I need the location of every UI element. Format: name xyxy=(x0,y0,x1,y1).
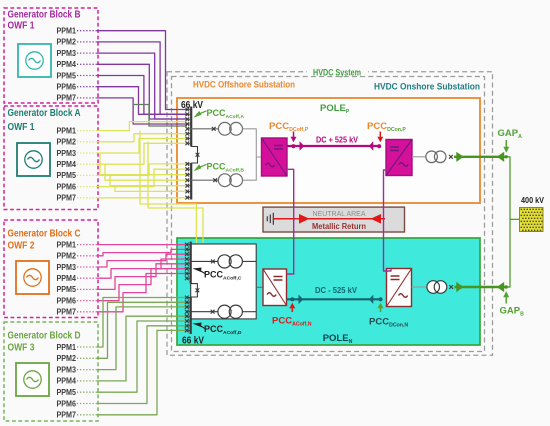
metallic return connection onshore (purple) xyxy=(384,170,392,271)
svg-text:Generator Block B: Generator Block B xyxy=(8,10,81,21)
svg-text:PPM6: PPM6 xyxy=(57,83,77,92)
svg-text:Generator Block D: Generator Block D xyxy=(8,331,81,342)
svg-text:PPM4: PPM4 xyxy=(57,60,77,69)
DC -525 kV line pole N xyxy=(287,295,383,305)
DC +525 kV line pole P xyxy=(287,141,381,151)
metallic return line with arrows (red) xyxy=(273,214,385,224)
wire: extra yellow rows into bus section B xyxy=(100,153,187,175)
svg-text:PPM6: PPM6 xyxy=(57,296,77,305)
svg-text:PPM5: PPM5 xyxy=(57,285,77,294)
bus coupler breaker between section A and B xyxy=(191,147,197,164)
svg-text:Generator Block A: Generator Block A xyxy=(8,108,81,119)
AC grid line pole N with arrows (green) xyxy=(454,282,508,292)
PCC ACoff,A marker xyxy=(194,111,202,118)
transformer T-C xyxy=(191,255,243,268)
breaker x onshore N xyxy=(449,285,453,289)
generator block A (OWF 1) xyxy=(4,106,98,210)
svg-text:OWF 1: OWF 1 xyxy=(8,21,35,32)
PCC DCon,N marker xyxy=(380,308,382,313)
svg-text:OWF 2: OWF 2 xyxy=(8,241,35,252)
66 kV busbar section C (offshore pole N) xyxy=(190,242,192,284)
generator block D (OWF 3) xyxy=(4,322,98,421)
wire bundle: block D PPM1-PPM7 to lower 66kV bus section D (green) xyxy=(77,298,186,415)
wire: dark sage line into bus row 4 xyxy=(133,105,187,127)
converter U4 onshore pole N (DC/AC) xyxy=(387,269,412,307)
PCC ACoff,B marker xyxy=(194,164,202,171)
POLE P boundary (orange rect) xyxy=(177,98,480,203)
AC grid line pole P with arrows (green) xyxy=(454,152,510,287)
branch to 400 kV grid xyxy=(510,218,520,220)
svg-text:PPM2: PPM2 xyxy=(57,38,77,47)
POLE N offshore AC switchyard white box xyxy=(191,244,257,319)
svg-text:PPM2: PPM2 xyxy=(57,354,77,363)
svg-text:PPM3: PPM3 xyxy=(57,149,77,158)
svg-text:DC - 525 kV: DC - 525 kV xyxy=(315,285,357,295)
svg-text:PPM1: PPM1 xyxy=(57,343,77,352)
svg-text:HVDC System: HVDC System xyxy=(313,68,361,78)
svg-text:OWF 3: OWF 3 xyxy=(8,343,35,354)
svg-text:PPM6: PPM6 xyxy=(57,399,77,408)
transformer T-D xyxy=(191,305,243,318)
gray AC collector lines to offshore converter P xyxy=(243,129,262,157)
svg-text:PPM5: PPM5 xyxy=(57,71,77,80)
svg-text:66 kV: 66 kV xyxy=(181,100,203,111)
transformer T-A xyxy=(191,122,243,135)
svg-text:HVDC Onshore Substation: HVDC Onshore Substation xyxy=(374,82,480,92)
svg-text:PPM1: PPM1 xyxy=(57,27,77,36)
outer HVDC System dashed boundary xyxy=(167,72,493,356)
converter U1 offshore pole P (AC/DC) xyxy=(262,138,288,176)
inner substations dashed boundary xyxy=(172,77,485,352)
neutral area box xyxy=(263,207,405,232)
generator block B (OWF 1) xyxy=(4,8,98,103)
svg-text:DC + 525 kV: DC + 525 kV xyxy=(316,135,358,145)
svg-text:PPM3: PPM3 xyxy=(57,263,77,272)
svg-text:PPM5: PPM5 xyxy=(57,388,77,397)
generator block C (OWF 2) xyxy=(4,220,98,318)
wire bundle: block A PPM1-PPM7 to 66kV bus sections (yellow) xyxy=(77,122,203,243)
svg-text:PPM7: PPM7 xyxy=(57,411,77,420)
wire: yellow risers feeding POLE N AC box xyxy=(140,131,196,243)
PCC ACoff,D marker xyxy=(193,323,202,328)
POLE N area (cyan rect) xyxy=(177,238,480,345)
svg-text:PPM4: PPM4 xyxy=(57,377,77,386)
400 kV grid equivalent box xyxy=(520,208,544,232)
PCC ACoff,C marker xyxy=(193,268,202,273)
svg-text:66 kV: 66 kV xyxy=(182,336,204,347)
svg-text:PPM4: PPM4 xyxy=(57,160,77,169)
svg-text:PPM1: PPM1 xyxy=(57,240,77,249)
svg-text:PPM6: PPM6 xyxy=(57,182,77,191)
svg-text:OWF 1: OWF 1 xyxy=(8,122,35,133)
svg-text:PPM5: PPM5 xyxy=(57,171,77,180)
onshore transformer pole P xyxy=(412,156,426,158)
svg-text:400 kV: 400 kV xyxy=(521,196,544,205)
svg-text:PPM2: PPM2 xyxy=(57,138,77,147)
svg-text:PPM4: PPM4 xyxy=(57,274,77,283)
PCC ACoff,N marker xyxy=(291,308,293,313)
svg-text:POLEN: POLEN xyxy=(323,333,353,345)
AC collector lines to offshore converter N xyxy=(242,260,256,262)
wire bundle: block B PPM1-PPM7 to 66kV bus section A (purple) xyxy=(77,31,187,124)
svg-text:PPM3: PPM3 xyxy=(57,365,77,374)
disconnector x-marks on bus sections C and D xyxy=(185,243,191,333)
label mask behind HVDC System xyxy=(307,67,368,76)
svg-text:NEUTRAL AREA: NEUTRAL AREA xyxy=(313,209,367,218)
converter U3 offshore pole N (AC/DC) xyxy=(263,269,287,306)
metallic return connection offshore (purple) xyxy=(287,169,294,274)
svg-text:PPM2: PPM2 xyxy=(57,252,77,261)
svg-text:Generator Block C: Generator Block C xyxy=(8,229,81,240)
svg-text:PPM1: PPM1 xyxy=(57,126,77,135)
66 kV busbar section D xyxy=(190,297,192,334)
wire bundle: block C PPM1-PPM7 to lower 66kV bus section C (pink) xyxy=(77,245,186,312)
66 kV busbar section B xyxy=(190,163,192,200)
svg-text:HVDC Offshore Substation: HVDC Offshore Substation xyxy=(193,80,295,90)
onshore transformer pole N xyxy=(412,286,428,288)
svg-text:PPM3: PPM3 xyxy=(57,49,77,58)
svg-text:PPM7: PPM7 xyxy=(57,194,77,203)
svg-text:POLEP: POLEP xyxy=(320,103,350,115)
converter U2 onshore pole P (DC/AC) xyxy=(386,140,412,176)
66 kV busbar section A (offshore pole P) xyxy=(190,107,192,147)
bus coupler breaker between section C and D xyxy=(191,284,198,297)
transformer T-B xyxy=(191,174,243,187)
ground symbol xyxy=(267,213,273,225)
disconnector x-marks on bus sections A and B xyxy=(185,108,191,200)
GAP B marker xyxy=(505,297,507,304)
svg-text:Metallic Return: Metallic Return xyxy=(312,221,366,231)
svg-text:PPM7: PPM7 xyxy=(57,94,77,103)
breaker x onshore P xyxy=(449,155,453,159)
svg-text:PPM7: PPM7 xyxy=(57,308,77,317)
